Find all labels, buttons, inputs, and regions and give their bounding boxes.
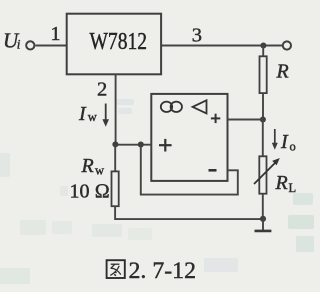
- current arrow Iw: [102, 104, 109, 127]
- junction node ground: [260, 216, 266, 222]
- wire noninverting input: [116, 144, 152, 146]
- wire pin2 down: [115, 74, 117, 144]
- op-amp triangle symbol: [193, 100, 207, 113]
- label Ui: [3, 29, 21, 53]
- wire op-amp output to load rail: [228, 119, 263, 121]
- svg-text:2: 2: [97, 78, 107, 100]
- junction node pin2/Rw: [112, 141, 118, 147]
- op-amp noninverting input plus: [159, 139, 172, 152]
- svg-text:I: I: [280, 131, 289, 153]
- feedback wire bottom horizontal: [140, 194, 238, 196]
- bleed-through smudge right margin 2: [288, 215, 314, 252]
- svg-text:2. 7-12: 2. 7-12: [129, 258, 197, 283]
- label RL: [275, 172, 297, 195]
- wire junction to R top: [262, 46, 264, 57]
- bleed-through smudge left edge middle: [0, 153, 10, 177]
- wire pin3 output rail: [162, 45, 283, 47]
- svg-text:o: o: [290, 139, 296, 153]
- svg-text:3: 3: [192, 24, 202, 46]
- bleed-through smudge bottom left: [0, 268, 30, 284]
- junction node feedback tap: [138, 141, 144, 147]
- resistor R: [260, 56, 267, 93]
- svg-text:1: 1: [51, 23, 61, 45]
- wire load rail to RL top: [262, 120, 264, 157]
- label Iw: [78, 103, 97, 125]
- bleed-through smudge top middle: [116, 99, 134, 114]
- bleed-through smudge band lower left: [20, 220, 152, 240]
- svg-text:R: R: [276, 60, 289, 82]
- input terminal circle: [26, 41, 34, 49]
- op-amp output polarity plus: [211, 114, 220, 123]
- op-amp U2 box: [151, 94, 227, 181]
- bleed-through smudge left of Rw: [60, 186, 68, 196]
- hand-drawn CJK glyph tu (picture): [107, 260, 125, 278]
- feedback wire right vertical: [237, 170, 239, 195]
- svg-text:w: w: [88, 110, 97, 124]
- svg-text:10 Ω: 10 Ω: [70, 181, 110, 203]
- junction node opamp output / load rail: [260, 116, 266, 122]
- wire RL bottom to ground node: [262, 194, 264, 219]
- svg-text:R: R: [275, 172, 288, 194]
- svg-text:W7812: W7812: [90, 28, 148, 55]
- ground bar: [255, 230, 272, 233]
- load rheostat RL body: [259, 156, 266, 193]
- svg-text:i: i: [17, 37, 21, 52]
- svg-text:w: w: [95, 163, 104, 177]
- svg-text:L: L: [289, 181, 297, 195]
- bleed-through smudge bottom right of caption: [204, 258, 238, 272]
- wire Rw bottom to ground rail: [115, 206, 263, 219]
- label Rw: [81, 155, 105, 177]
- rheostat RL arrow: [254, 158, 280, 184]
- feedback wire to inverting input: [228, 169, 239, 171]
- output terminal circle: [283, 41, 291, 49]
- wire input to regulator: [36, 45, 67, 47]
- svg-text:I: I: [78, 103, 87, 125]
- current arrow Io: [272, 129, 278, 150]
- op-amp inverting input minus: [209, 169, 217, 172]
- label Io: [280, 131, 296, 154]
- regulator U1 W7812 box: [67, 14, 161, 75]
- svg-text:R: R: [81, 155, 94, 177]
- feedback wire left vertical: [140, 145, 142, 195]
- bleed-through smudge right margin 1: [293, 193, 313, 205]
- junction node at pin3/R: [260, 42, 266, 48]
- caption figure number 图 2.7-12: [107, 258, 196, 283]
- wire dot to Rw top: [114, 145, 116, 172]
- wire R bottom to opamp-output node: [262, 93, 264, 119]
- ground stem: [262, 219, 264, 231]
- op-amp infinity gain symbol: [161, 102, 182, 112]
- rheostat Rw body: [112, 171, 119, 206]
